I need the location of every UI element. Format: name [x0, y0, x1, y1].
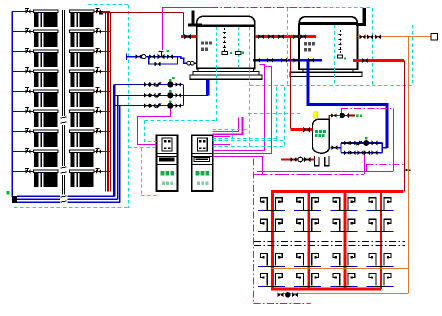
control cabinet 1 — [157, 135, 178, 191]
red stub/valve row 3 — [94, 51, 110, 53]
blue stub/valve row 1 — [12, 11, 34, 13]
cyan sensor wiring — [145, 120, 217, 122]
radiator unit row 2 col 4 — [367, 231, 394, 233]
red risers — [271, 192, 274, 290]
collector field enclosure (cyan dashed) — [88, 4, 129, 6]
radiator unit row 4 col 3 — [330, 286, 357, 288]
blue stub/valve row 6 — [12, 111, 34, 113]
pump line 3 — [114, 105, 183, 107]
pump line 1 — [114, 84, 183, 86]
radiator unit row 1 col 4 — [367, 210, 394, 212]
red/blue pipes entering tank2 — [299, 35, 316, 38]
radiator unit row 4 col 1 — [258, 286, 285, 288]
radiator unit row 2 col 3 — [330, 231, 357, 233]
radiator zone red headers — [271, 190, 404, 193]
magenta top power cable — [162, 7, 211, 9]
magenta cable pump3 to cabinet1 — [138, 109, 171, 145]
red stub/valve row 6 — [94, 111, 110, 113]
bypass loop — [149, 57, 178, 64]
tank1 level gauge — [224, 28, 226, 51]
tank1 blue drop pipe — [206, 65, 209, 95]
radiator unit row 1 col 2 — [294, 210, 321, 212]
orange return lines — [272, 268, 409, 270]
radiator unit row 3 col 3 — [330, 266, 357, 268]
cabinet 2 green label — [196, 171, 200, 176]
orange riser down right side — [408, 37, 410, 294]
cold water make-up line — [126, 53, 128, 59]
expansion vessel — [314, 112, 318, 118]
storage tank T1 — [197, 16, 255, 68]
tank1 top-left vent pipe — [191, 11, 194, 26]
collector left blue supply main — [11, 11, 13, 197]
collector row 6 — [33, 110, 58, 113]
tank1-tank2 blue link pipe — [253, 59, 322, 62]
tank1 hot supply (red, left) — [181, 35, 197, 38]
radiator unit row 2 col 1 — [258, 231, 285, 233]
tank2 orange city water line — [358, 36, 433, 38]
collector row 4 — [33, 70, 58, 73]
tank2 top-right vent pipe — [363, 8, 366, 26]
radiator unit row 3 col 1 — [258, 266, 285, 268]
vessel red feed — [290, 38, 292, 128]
red stub/valve row 1 — [94, 11, 110, 13]
vessel legs — [315, 156, 319, 166]
collector row 3 — [33, 50, 58, 53]
vessel relief line — [329, 116, 347, 120]
blue stub/valve row 4 — [12, 71, 34, 73]
tank1 interior cyan sensor lines — [216, 27, 218, 69]
red header from collectors to tank1 — [99, 11, 103, 15]
collector middle manifold pipes — [62, 10, 64, 204]
red stub/valve row 4 — [94, 71, 110, 73]
tank2 enclosure (cyan dashed) — [287, 7, 372, 9]
collector row 8 — [33, 150, 58, 153]
red stub/valve row 8 — [94, 151, 110, 153]
jog + water meter into tank1 base — [178, 57, 202, 64]
collector row 1 — [33, 10, 58, 13]
collector row 5 — [33, 90, 58, 93]
blue stub/valve row 9 — [12, 171, 34, 173]
blue stub/valve row 8 — [12, 151, 34, 153]
red stub/valve row 5 — [94, 91, 110, 93]
floor heating pump set — [277, 292, 283, 297]
tank1 label text — [201, 41, 204, 44]
collector bottom blue header frame — [17, 195, 115, 197]
tank2 pedestal — [303, 69, 353, 72]
zone separation dash-dot lines — [254, 241, 405, 243]
pressure reducing valve — [158, 54, 165, 59]
red stub/valve row 2 — [94, 31, 110, 33]
wiring end marks — [406, 169, 408, 171]
radiator unit row 4 col 2 — [294, 286, 321, 288]
radiator unit row 1 col 1 — [258, 210, 285, 212]
cabinet 1 green label — [161, 171, 165, 176]
tank2 label text — [304, 42, 307, 45]
radiator unit row 3 col 2 — [294, 266, 321, 268]
blue stub/valve row 3 — [12, 51, 34, 53]
red stub/valve row 7 — [94, 131, 110, 133]
blue stub/valve row 5 — [12, 91, 34, 93]
tank2 level gauge — [340, 30, 342, 55]
tank2 red return to radiators — [353, 59, 404, 62]
heat-exchange pump group — [340, 143, 342, 153]
red stub/valve row 9 — [94, 171, 110, 173]
collector right red risers — [105, 13, 107, 192]
tank2 top band — [299, 22, 358, 25]
blue transfer pipe tank->heat-exch pumps — [308, 60, 387, 148]
pump group right manifold — [183, 85, 185, 106]
tank1 top band — [197, 24, 255, 27]
radiator unit row 4 col 4 — [367, 286, 394, 288]
radiator unit row 1 col 3 — [330, 210, 357, 212]
magenta radiator feed cables — [254, 159, 311, 304]
pump line 2 — [114, 95, 183, 97]
magenta cables cabinet2 — [213, 118, 239, 132]
manifold break at frame — [60, 195, 68, 205]
vessel drain line — [281, 159, 315, 161]
collector row 7 — [33, 130, 58, 133]
radiator unit row 2 col 2 — [294, 231, 321, 233]
storage tank T2 — [299, 17, 358, 70]
radiator unit row 3 col 4 — [367, 266, 394, 268]
vessel label — [315, 130, 318, 133]
control cabinet 2 — [192, 135, 213, 191]
collector row 9 — [33, 170, 58, 173]
tank1 pedestal — [198, 69, 254, 72]
blue stub/valve row 7 — [12, 131, 34, 133]
collector row 2 — [33, 30, 58, 33]
tank1-tank2 red link pipe — [255, 35, 316, 38]
vessel blue outlet — [330, 147, 341, 149]
blue stub/valve row 2 — [12, 31, 34, 33]
green sensor mark — [6, 191, 9, 194]
